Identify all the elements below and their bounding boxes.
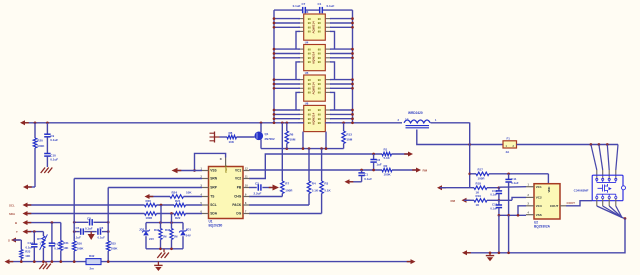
wire SDA drop: [171, 214, 173, 223]
opto relay U3: [304, 14, 326, 40]
resistor R18: [440, 187, 474, 189]
wire to VC1 pin U2: [499, 186, 526, 189]
svg-text:R33: R33: [165, 228, 171, 232]
ground right: [489, 251, 492, 254]
svg-text:100R: 100R: [146, 216, 153, 220]
port B: [23, 220, 28, 225]
resistor R6: [286, 123, 288, 131]
wire SRN row: [74, 178, 202, 180]
wire rail under optos: [261, 148, 344, 150]
capacitor C7: [302, 7, 304, 13]
resistor R2: [382, 168, 392, 172]
wires U6 right: [330, 109, 353, 111]
svg-text:VC2: VC2: [235, 177, 241, 181]
svg-text:100K: 100K: [77, 247, 85, 251]
port T: [23, 229, 28, 234]
svg-text:PACK: PACK: [232, 203, 241, 207]
svg-text:100K: 100K: [384, 173, 392, 177]
svg-text:10K: 10K: [229, 140, 235, 144]
svg-text:SRN: SRN: [210, 177, 217, 181]
svg-text:TS: TS: [210, 195, 214, 199]
capacitor C12: [498, 188, 500, 191]
svg-text:5.1K: 5.1K: [312, 188, 319, 192]
svg-text:BQ20Z80: BQ20Z80: [209, 223, 223, 227]
svg-text:D: D: [220, 157, 222, 161]
svg-text:R26: R26: [146, 199, 152, 203]
svg-text:C8: C8: [87, 216, 91, 220]
resistor R16 SRN column: [73, 179, 75, 242]
svg-text:R2: R2: [384, 164, 388, 168]
resistor R33: [171, 223, 173, 229]
fuse F1: [503, 141, 517, 148]
svg-text:R6: R6: [290, 132, 294, 136]
svg-text:RM: RM: [423, 169, 428, 173]
svg-text:R1: R1: [384, 147, 388, 151]
svg-text:VC2: VC2: [536, 196, 542, 200]
svg-text:COUT: COUT: [567, 201, 576, 205]
svg-text:U5: U5: [305, 71, 309, 75]
resistor R13: [343, 123, 345, 131]
svg-text:10K: 10K: [63, 246, 68, 250]
svg-text:C13: C13: [492, 203, 498, 207]
capacitor C13 lower: [498, 200, 500, 205]
svg-text:C11: C11: [511, 177, 517, 181]
port arrow PB: [273, 185, 280, 191]
port arrow R1: [408, 152, 413, 157]
opto relay U5: [304, 75, 326, 101]
sense resistor R32: [86, 259, 101, 265]
wire link U5 bottom: [296, 92, 300, 109]
resistor R27: [145, 212, 157, 216]
wire pack vertical: [469, 123, 471, 188]
port arrow bus right: [411, 259, 416, 264]
svg-text:R4: R4: [312, 181, 316, 185]
IC U1 body: [209, 167, 244, 219]
svg-text:24V: 24V: [149, 237, 154, 241]
wire FET top taps: [591, 145, 597, 171]
svg-text:1uF: 1uF: [376, 163, 382, 167]
wire bottom bus: [7, 261, 86, 263]
port arrow pack minus: [462, 250, 467, 255]
svg-text:Q1: Q1: [265, 132, 269, 136]
wire after L1: [431, 122, 470, 124]
svg-text:C3: C3: [255, 181, 259, 185]
svg-text:R34: R34: [154, 228, 160, 232]
capacitor C11: [508, 174, 510, 180]
svg-text:S: S: [8, 238, 10, 242]
capacitor C9: [46, 123, 48, 134]
svg-text:R13: R13: [346, 132, 352, 136]
wire left cell bus: [273, 10, 275, 123]
svg-text:BQ29302A: BQ29302A: [534, 224, 551, 228]
svg-text:U6: U6: [305, 102, 309, 106]
svg-text:10M: 10M: [290, 138, 296, 142]
svg-text:F1: F1: [507, 136, 511, 140]
svg-text:SRP: SRP: [210, 186, 217, 190]
svg-text:R31: R31: [63, 241, 69, 245]
wires U4 right: [330, 48, 353, 50]
resistor R24 TS row: [147, 196, 170, 198]
svg-text:R3: R3: [324, 181, 328, 185]
svg-text:24V: 24V: [186, 233, 191, 237]
svg-text:0.1uF: 0.1uF: [490, 206, 497, 210]
MOSFET internal drawing: [597, 181, 616, 183]
wire link U4 bottom: [296, 62, 300, 79]
capacitor C1 lower: [361, 170, 363, 173]
wire SRP row: [108, 187, 202, 189]
svg-text:RT: RT: [37, 237, 41, 241]
svg-text:0.1uF: 0.1uF: [511, 181, 519, 185]
capacitor C14: [33, 232, 35, 245]
svg-text:1M: 1M: [174, 234, 179, 238]
svg-text:5.1K: 5.1K: [324, 188, 331, 192]
svg-text:PBPK: PBPK: [224, 165, 228, 172]
svg-text:0.1uF: 0.1uF: [490, 193, 497, 197]
svg-text:RM: RM: [451, 199, 456, 203]
svg-text:100R: 100R: [285, 188, 293, 192]
svg-text:SCL: SCL: [210, 203, 216, 207]
wire C8 row: [74, 221, 88, 223]
svg-text:SDA: SDA: [210, 212, 217, 216]
svg-text:U4: U4: [305, 41, 309, 45]
svg-text:T: T: [16, 230, 18, 234]
resistor R34: [160, 223, 162, 229]
svg-text:1M: 1M: [163, 234, 168, 238]
wires U5 left: [274, 79, 300, 81]
resistor R19: [464, 199, 474, 201]
svg-text:0.1uF: 0.1uF: [293, 4, 301, 8]
ground rake R8: [214, 132, 216, 143]
port arrow left top: [20, 120, 25, 125]
wire VDD drop: [547, 174, 549, 184]
thermistor RT1: [42, 232, 44, 236]
svg-text:WRD2420: WRD2420: [408, 111, 423, 115]
svg-text:C6: C6: [100, 226, 104, 230]
svg-text:R15: R15: [111, 242, 117, 246]
wire zener block top: [146, 222, 183, 224]
svg-text:10M: 10M: [346, 138, 352, 142]
wire COUT: [560, 205, 566, 207]
svg-text:VSS: VSS: [210, 169, 216, 173]
svg-text:R17: R17: [478, 168, 484, 172]
resistor R31: [60, 223, 62, 241]
svg-text:C1: C1: [318, 2, 322, 6]
port arrow R2: [416, 168, 421, 173]
wires U6 left: [274, 109, 300, 111]
svg-text:900K: 900K: [37, 144, 45, 148]
ground below bus left: [45, 262, 47, 264]
wire DG row: [249, 213, 322, 215]
svg-text:100K: 100K: [111, 247, 119, 251]
resistor R1: [382, 152, 392, 156]
svg-text:C14: C14: [27, 241, 33, 245]
wire cap returns: [498, 215, 500, 253]
resistor R26: [145, 203, 157, 207]
svg-text:VDD: VDD: [547, 187, 551, 193]
resistor R15 SRP column: [107, 188, 109, 242]
svg-text:R20: R20: [37, 139, 43, 143]
svg-text:0.1uF: 0.1uF: [85, 226, 93, 230]
port arrow D: [437, 185, 442, 190]
svg-text:0.1uF: 0.1uF: [50, 158, 58, 162]
svg-text:PB: PB: [237, 186, 242, 190]
ground zener block: [163, 249, 165, 252]
wire T row: [25, 231, 43, 233]
svg-text:0.1uF: 0.1uF: [364, 177, 372, 181]
junction dots on main net: [34, 121, 37, 124]
wire PACK row: [249, 204, 309, 206]
wire CHG row: [249, 196, 282, 198]
transistor Q1: [254, 132, 263, 141]
svg-text:R22: R22: [175, 216, 181, 220]
svg-text:C7: C7: [302, 2, 306, 6]
IC U2 body: [534, 184, 560, 219]
capacitor C2: [373, 154, 375, 160]
pins U6: [298, 109, 304, 111]
svg-text:0.1uF: 0.1uF: [50, 138, 58, 142]
wire VC1 row: [249, 169, 382, 171]
svg-text:10K: 10K: [186, 190, 192, 194]
resistor R17: [470, 173, 476, 175]
resistor R21: [174, 203, 186, 207]
port arrow TS: [145, 194, 150, 199]
ground below C10: [41, 168, 45, 174]
svg-text:R24: R24: [172, 190, 178, 194]
svg-text:0.1uF: 0.1uF: [98, 236, 106, 240]
ground below bus mid: [157, 262, 159, 266]
wire zener block bottom: [146, 248, 183, 250]
zener JD2: [145, 223, 147, 230]
svg-text:C12: C12: [492, 189, 498, 193]
wire C5 C6 row: [74, 231, 80, 233]
svg-text:0.1uF: 0.1uF: [327, 4, 335, 8]
svg-text:AQW214: AQW214: [312, 112, 316, 125]
svg-text:C1: C1: [364, 172, 368, 176]
svg-text:AQW214: AQW214: [312, 52, 316, 65]
wire top rail: [274, 9, 302, 11]
port arrow C1: [345, 179, 350, 184]
svg-text:C5: C5: [76, 226, 80, 230]
wire F1 to FETs: [517, 144, 619, 146]
svg-text:COUT: COUT: [550, 204, 559, 208]
wire FET source down: [465, 219, 625, 253]
resistor R4: [308, 149, 310, 181]
svg-text:5.1K: 5.1K: [384, 156, 391, 160]
port arrow R20 bottom: [26, 186, 35, 188]
junction dots bottom bus: [20, 260, 23, 263]
wire VC2 row: [249, 154, 382, 179]
wire right cell bus: [352, 10, 354, 123]
svg-text:2N7002: 2N7002: [265, 137, 276, 141]
svg-text:10K: 10K: [25, 254, 30, 258]
capacitor C10: [46, 137, 48, 154]
wire VC3 tie: [518, 206, 526, 216]
pins U3: [298, 18, 304, 20]
MOSFET pins inside: [596, 178, 598, 180]
wire VSS row + port: [174, 170, 202, 172]
svg-text:DG: DG: [236, 212, 241, 216]
svg-text:2m: 2m: [90, 266, 95, 270]
capacitor C5: [80, 228, 82, 234]
svg-text:AQW214: AQW214: [312, 82, 316, 95]
svg-text:SCL: SCL: [9, 203, 15, 207]
svg-text:C34063MF: C34063MF: [574, 188, 589, 192]
svg-text:R8: R8: [229, 131, 233, 135]
wire SDA row: [25, 213, 145, 215]
wire link U3 bottom: [296, 31, 300, 48]
port arrow bus left: [5, 259, 10, 264]
svg-text:CHG: CHG: [234, 195, 242, 199]
svg-text:VC1: VC1: [536, 185, 542, 189]
capacitor C3 PB row: [249, 187, 257, 189]
svg-text:2.2uF: 2.2uF: [254, 192, 262, 196]
opto relay U6: [304, 105, 326, 131]
svg-text:JD2: JD2: [139, 227, 145, 231]
svg-text:JD1: JD1: [186, 227, 192, 231]
port SCL: [23, 203, 28, 208]
resistor R20: [34, 123, 36, 138]
wire VSS row U2: [499, 214, 526, 216]
resistor R3: [321, 149, 323, 181]
wires U4 left: [274, 48, 300, 50]
pins U5: [298, 79, 304, 81]
IC U1 top pin: [225, 158, 227, 167]
svg-text:R32: R32: [89, 254, 95, 258]
svg-text:VSS: VSS: [536, 213, 542, 217]
IC U2 pins: [526, 186, 534, 188]
resistor R7: [281, 123, 283, 181]
svg-text:R18: R18: [476, 182, 482, 186]
IC U1 pins: [202, 170, 209, 172]
svg-text:R16: R16: [77, 242, 83, 246]
zener JD1: [182, 223, 184, 230]
wire to VC2 pin U2: [512, 197, 526, 200]
wire link U6 bottom: [302, 132, 304, 149]
dual MOSFET Q2 box: [592, 175, 623, 201]
svg-text:VC1: VC1: [235, 169, 241, 173]
port SDA: [23, 211, 28, 216]
resistor R8: [220, 136, 228, 138]
svg-text:SDA: SDA: [9, 212, 16, 216]
capacitor C13: [51, 223, 53, 244]
svg-text:R7: R7: [285, 181, 289, 185]
wire SCL drop: [160, 205, 162, 223]
svg-text:C2: C2: [376, 158, 380, 162]
opto relay U4: [304, 45, 326, 71]
pins U4: [298, 48, 304, 50]
svg-text:R21: R21: [175, 199, 181, 203]
wires U3 right: [330, 18, 353, 20]
resistor R22: [174, 212, 186, 216]
svg-text:VC3: VC3: [536, 204, 542, 208]
svg-text:R19: R19: [476, 194, 482, 198]
svg-text:AQW214: AQW214: [312, 21, 316, 34]
ground arrow T row: [90, 232, 92, 234]
wire SCL row: [25, 204, 145, 206]
wire FET bottom pins: [596, 199, 598, 206]
capacitor C6: [97, 228, 99, 234]
wire B row: [25, 222, 61, 224]
wire main horizontal net: [23, 122, 304, 124]
svg-text:100R: 100R: [478, 176, 486, 180]
wires U3 left: [274, 18, 300, 20]
svg-text:U3: U3: [305, 10, 309, 14]
svg-text:B: B: [15, 221, 17, 225]
capacitor C1: [319, 7, 321, 13]
port S row resistor R23: [11, 238, 16, 243]
wire L1 tap down: [417, 130, 503, 145]
wires U5 right: [330, 79, 353, 81]
